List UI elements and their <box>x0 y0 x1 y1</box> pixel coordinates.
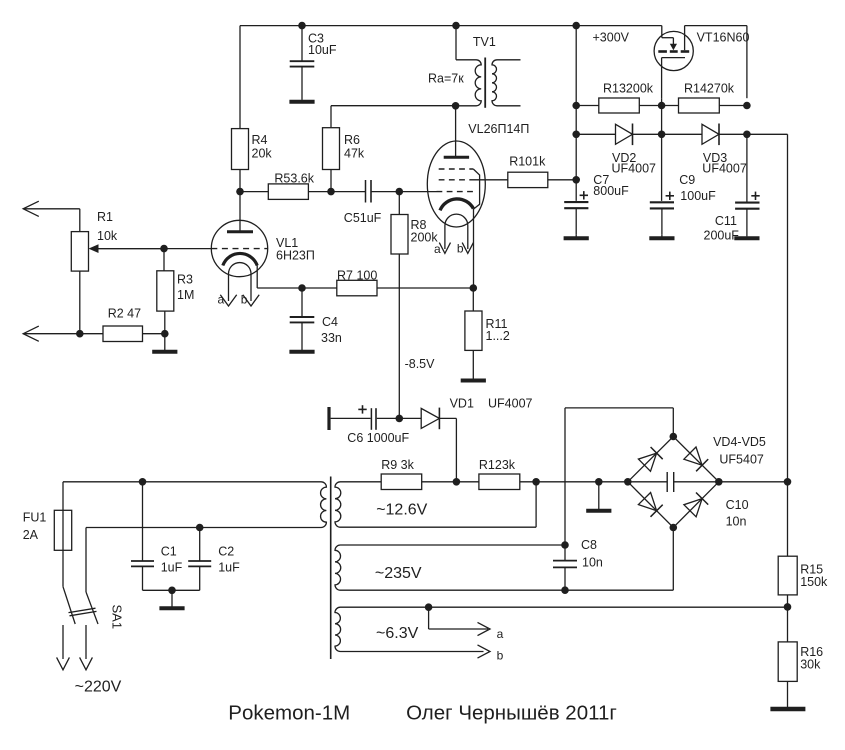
VL2 screen grid g3 (dashed) + cathode tie <box>439 169 480 209</box>
ground (under C1/C2) <box>159 590 184 608</box>
capacitor C4 33n <box>290 288 342 350</box>
svg-text:R2 47: R2 47 <box>108 307 141 321</box>
wire: R13 to gate node <box>639 105 678 107</box>
svg-text:VL26П14П: VL26П14П <box>468 122 529 136</box>
VL2 grid g2 (dashed) <box>439 179 508 181</box>
switch SA1 pole 2 <box>86 528 98 625</box>
wire: VD3 to right edge <box>719 133 788 135</box>
transformer T2 winding ~235V <box>335 545 673 590</box>
node: VD2 left junction <box>572 131 580 139</box>
svg-text:10k: 10k <box>97 229 118 243</box>
VL2 heater pin a arrow <box>434 242 451 256</box>
ground (under C7) <box>564 235 589 239</box>
wire: +300V top rail (left segment) <box>240 25 662 27</box>
svg-text:a: a <box>434 242 441 256</box>
node: R5/R6/C5 junction <box>327 188 335 196</box>
wire: heater feed a with arrow <box>429 607 504 641</box>
node: gate/R13/R14 junction <box>658 102 666 110</box>
label -8.5V net <box>405 357 436 371</box>
wire: VL1 grid lead <box>99 248 212 250</box>
svg-text:100uF: 100uF <box>680 189 716 203</box>
wire: R10 to C7 node <box>548 179 576 181</box>
node: bridge AC ground stub junction <box>595 478 603 486</box>
ground (under R11) <box>461 379 486 381</box>
transformer T2 winding ~12.6V <box>335 482 536 527</box>
potentiometer R1 10k <box>71 210 118 271</box>
svg-text:~6.3V: ~6.3V <box>376 625 419 642</box>
capacitor C2 1uF <box>188 528 240 591</box>
diode VD1 UF4007 <box>421 397 532 430</box>
resistor R8 200k (grid leak) <box>391 215 438 255</box>
svg-text:R53.6k: R53.6k <box>274 172 314 186</box>
VL1 cathode <box>223 253 257 265</box>
node: 235V top / C8 junction <box>561 541 569 549</box>
svg-text:C6 1000uF: C6 1000uF <box>347 431 409 445</box>
node: R1-bottom / input-return junction <box>76 330 84 338</box>
tube VL2 6P14P envelope <box>427 141 485 227</box>
capacitor C6 1000uF (bias) <box>329 405 410 445</box>
resistor R9 3k <box>381 458 422 490</box>
svg-text:-8.5V: -8.5V <box>405 357 436 371</box>
svg-text:~235V: ~235V <box>375 565 422 582</box>
node: R2/R3 ground junction <box>161 330 169 338</box>
diode VD5a (bridge bottom-left) <box>638 493 662 517</box>
svg-text:R1: R1 <box>97 210 113 224</box>
label SA1 (rotated) <box>110 605 125 630</box>
label ~220V <box>75 679 122 696</box>
node: cathode/C4/R7 junction <box>298 284 306 292</box>
resistor R10 1k (screen) <box>508 155 548 188</box>
label title Pokemon-1M <box>228 702 350 725</box>
node: C5/R8/VL2-grid junction <box>396 188 404 196</box>
diode VD4a (bridge top-left) <box>638 447 662 471</box>
capacitor C9 100uF <box>650 173 716 235</box>
wire: bridge output to right edge <box>719 481 788 483</box>
svg-text:Олег Чернышёв 2011г: Олег Чернышёв 2011г <box>406 702 617 725</box>
wire: R8 top lead <box>398 192 400 215</box>
VL1 heater filament <box>229 263 252 301</box>
wire: heater feed b with arrow <box>478 645 504 663</box>
transistor VT1 16N60 (MOSFET) <box>654 26 693 99</box>
label +300V <box>593 31 630 45</box>
transformer TV1 secondary winding <box>492 60 521 106</box>
svg-text:UF4007: UF4007 <box>488 397 533 411</box>
wire: R14 right lead <box>719 105 747 107</box>
svg-text:47k: 47k <box>344 147 365 161</box>
svg-text:a: a <box>218 293 225 307</box>
resistor R7 100 <box>337 269 378 296</box>
capacitor C1 1uF <box>131 482 183 591</box>
svg-text:VD1: VD1 <box>450 397 474 411</box>
svg-text:C1: C1 <box>161 545 177 559</box>
wire: mains lead 2 with arrow <box>80 625 93 670</box>
wire: divider mid <box>787 595 789 642</box>
capacitor C8 10n <box>553 538 603 590</box>
node: TV1 primary bottom / VL2 anode <box>452 102 460 110</box>
capacitor C7 800uF <box>564 173 629 235</box>
node: C6/VD1/-8.5V junction <box>396 415 404 423</box>
svg-text:C8: C8 <box>581 538 597 552</box>
svg-text:C10: C10 <box>726 498 749 512</box>
resistor R6 47k (feedback) <box>323 106 365 192</box>
wire: mains lead 1 with arrow <box>57 625 70 670</box>
label author <box>406 702 617 725</box>
node: primary bottom / C2 junction <box>196 524 204 532</box>
svg-text:150k: 150k <box>800 575 828 589</box>
node: bridge bottom vertex <box>670 524 678 532</box>
node: VD3/C11 junction <box>743 131 751 139</box>
wire: raw B+ top rail (right segment) <box>685 26 747 99</box>
svg-text:10n: 10n <box>582 556 603 570</box>
resistor R11 1...2 <box>465 288 510 379</box>
svg-text:10uF: 10uF <box>308 43 337 57</box>
svg-text:C9: C9 <box>679 173 695 187</box>
svg-text:1M: 1M <box>177 288 194 302</box>
VL2 heater pin b arrow <box>457 242 474 256</box>
node: rail junction to TV1 primary <box>452 22 460 30</box>
VL2 cathode <box>440 199 473 211</box>
node: R10/C7 junction <box>572 176 580 184</box>
svg-text:VT16N60: VT16N60 <box>697 31 750 45</box>
wire: R8 bottom to -8.5V bias node <box>398 254 400 418</box>
resistor R16 30k <box>778 642 823 682</box>
label VL2 6P14P <box>468 122 529 136</box>
svg-text:800uF: 800uF <box>593 184 629 198</box>
svg-text:1uF: 1uF <box>218 561 240 575</box>
ground (under C11) <box>734 236 759 238</box>
svg-text:10n: 10n <box>726 515 747 529</box>
label TV1 <box>473 35 496 49</box>
wire: C6 to VD1 <box>377 417 421 419</box>
node: raw B+ / bridge output junction <box>784 478 792 486</box>
node: heater tap junction <box>425 603 433 611</box>
svg-text:~12.6V: ~12.6V <box>376 502 427 519</box>
svg-text:33n: 33n <box>321 331 342 345</box>
diode VD4b (bridge top-right) <box>684 447 708 471</box>
resistor R13 200k <box>599 82 654 114</box>
svg-text:+300V: +300V <box>593 31 630 45</box>
wire: gate vertical to C9 <box>661 98 663 201</box>
svg-text:C4: C4 <box>322 315 338 329</box>
wire: R12 to bridge AC node <box>520 481 628 483</box>
svg-text:Ra=7к: Ra=7к <box>428 72 464 86</box>
svg-text:UF4007: UF4007 <box>702 162 747 176</box>
label ~12.6V <box>376 502 427 519</box>
wire: VL1 cathode row <box>257 287 337 289</box>
wire: VL1 anode / R5 row <box>240 191 268 193</box>
svg-text:R123k: R123k <box>479 458 516 472</box>
label VT1 6N60 <box>697 31 750 45</box>
node: C9 / gate filter junction <box>658 131 666 139</box>
svg-text:200uF: 200uF <box>704 229 740 243</box>
wire: VL1 cathode lead <box>256 266 258 289</box>
ground (bridge AC stub) <box>586 482 611 511</box>
svg-text:C51uF: C51uF <box>344 211 382 225</box>
ground (under C3) <box>289 100 314 102</box>
wire: C7 branch vertical <box>575 26 577 201</box>
node: R15/R16/heater-reference junction <box>784 603 792 611</box>
svg-text:1uF: 1uF <box>161 561 183 575</box>
capacitor C5 1uF (coupling) <box>344 180 382 225</box>
node: R14 / raw B+ junction <box>743 102 751 110</box>
svg-text:R6: R6 <box>344 133 360 147</box>
ground (under C9) <box>649 235 674 239</box>
node: R4/R5/VL1-anode junction <box>236 188 244 196</box>
svg-text:~220V: ~220V <box>75 679 122 696</box>
label ~235V <box>375 565 422 582</box>
wire: VD1 to R9/R12 node <box>440 418 457 481</box>
svg-text:SA1: SA1 <box>110 605 125 630</box>
switch SA1 coupling link <box>69 608 97 616</box>
diode VD5b (bridge bottom-right) <box>684 493 708 517</box>
svg-text:FU1: FU1 <box>23 511 47 525</box>
VL1 anode <box>227 192 253 232</box>
diode VD3 UF4007 <box>702 124 747 176</box>
label ~6.3V <box>376 625 419 642</box>
transformer T2 primary winding <box>63 482 326 528</box>
resistor R5 3.6k <box>268 172 314 200</box>
svg-text:20k: 20k <box>252 147 273 161</box>
label VL1 6N23P <box>276 236 315 263</box>
svg-text:R9 3k: R9 3k <box>381 458 414 472</box>
fuse FU1 2A <box>23 482 72 587</box>
transformer T2 winding ~6.3V <box>335 607 788 651</box>
transformer T2 core <box>330 477 332 660</box>
node: winding return junction <box>532 478 540 527</box>
R1 wiper arrow <box>89 244 165 253</box>
wire: input bottom arrow <box>23 326 103 341</box>
svg-text:R7 100: R7 100 <box>337 269 377 283</box>
svg-text:C11: C11 <box>715 214 737 228</box>
svg-text:b: b <box>497 649 504 663</box>
ground (under C4) <box>289 350 314 352</box>
transformer TV1 core <box>484 58 486 108</box>
wire: R5 to C5 <box>308 191 365 193</box>
svg-text:Pokemon-1M: Pokemon-1M <box>228 702 350 725</box>
resistor R15 150k <box>778 556 828 595</box>
svg-text:a: a <box>497 627 504 641</box>
wire: raw B+ right edge <box>787 134 789 556</box>
switch SA1 pole 1 blade <box>63 587 75 624</box>
svg-text:2A: 2A <box>23 528 39 542</box>
capacitor C3 10uF <box>290 26 337 100</box>
diode VD2 UF4007 <box>612 124 657 176</box>
node: VL2 cathode / R11 junction <box>470 284 478 292</box>
wire: VL2 cathode lead <box>473 209 475 288</box>
svg-text:b: b <box>457 242 464 256</box>
wire: VD2 to C9 node <box>633 133 703 135</box>
VL1 heater pin a arrow <box>218 293 237 307</box>
svg-text:UF4007: UF4007 <box>612 162 657 176</box>
svg-text:R14270k: R14270k <box>684 82 735 96</box>
ground (under R2/R3) <box>152 334 177 352</box>
svg-text:6Н23П: 6Н23П <box>276 249 315 263</box>
node: grid/R3/wiper junction <box>160 245 168 253</box>
svg-text:R3: R3 <box>177 273 193 287</box>
node: R9/R12/VD1 junction <box>453 478 461 486</box>
svg-text:UF5407: UF5407 <box>719 453 764 467</box>
svg-text:30k: 30k <box>800 658 821 672</box>
wire: R1 bottom lead <box>79 271 81 334</box>
wire: R7 to VL2 cathode node <box>377 287 473 289</box>
VL1 heater pin b arrow <box>241 293 259 307</box>
resistor R12 3k <box>479 458 520 490</box>
node: C1/C2 ground junction <box>168 587 176 595</box>
wire: R9 to R12 <box>422 481 479 483</box>
resistor R2 47 <box>103 307 143 342</box>
wire: feedback line R6 to VL2 anode stub <box>331 105 456 107</box>
node: bridge right vertex <box>715 478 723 486</box>
resistor R4 20k <box>232 26 273 192</box>
svg-text:VD4-VD5: VD4-VD5 <box>713 435 766 449</box>
label VD4-VD5 UF5407 <box>713 435 766 467</box>
wire: bridge top feed <box>565 408 673 545</box>
svg-text:R13200k: R13200k <box>603 82 654 96</box>
svg-text:R101k: R101k <box>509 155 546 169</box>
node: R13 left junction <box>572 102 580 110</box>
diode bridge VD4-VD5 UF5407 frame <box>628 437 719 528</box>
VL1 grid (dashed) <box>211 248 267 250</box>
wire: C1-C2 bottom link <box>143 589 200 591</box>
node: rail junction to C7 branch <box>572 22 580 30</box>
tube VL1 6N23P envelope <box>211 220 267 276</box>
node: primary top / C1 junction <box>139 478 147 486</box>
node: 235V bottom / C8 junction <box>561 586 569 594</box>
svg-text:R4: R4 <box>252 133 268 147</box>
node: rail junction to C3 <box>298 22 306 30</box>
ground (under R16) <box>770 681 805 709</box>
node: bridge left vertex <box>624 478 632 486</box>
capacitor C10 10n (snubber) <box>628 472 749 529</box>
svg-text:1...2: 1...2 <box>486 329 510 343</box>
svg-text:b: b <box>241 293 248 307</box>
wire: C5 to VL2 grid node <box>371 191 437 193</box>
node: bridge top vertex <box>670 433 678 441</box>
wire: protection diode row <box>576 133 615 135</box>
transformer TV1 primary winding <box>456 26 481 106</box>
svg-text:C2: C2 <box>218 545 234 559</box>
wire: bridge bottom return <box>672 528 674 591</box>
svg-text:TV1: TV1 <box>473 35 496 49</box>
VL2 control grid g1 (dashed) <box>437 191 475 193</box>
label Ra=7k <box>428 72 464 86</box>
resistor R14 270k <box>679 82 735 114</box>
wire: gate divider row left lead <box>576 105 599 107</box>
wire: input top arrow <box>23 201 80 231</box>
VL2 anode <box>444 106 469 157</box>
resistor R3 1M <box>157 249 195 334</box>
capacitor C11 200uF <box>704 134 760 242</box>
wire: R2 to ground node <box>143 333 165 335</box>
VL2 heater filament <box>445 214 468 249</box>
